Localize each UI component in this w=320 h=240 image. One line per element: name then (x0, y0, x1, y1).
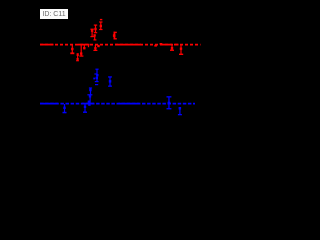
red top dash marker R8e (100, 19, 102, 20)
red error bar R8c above line (93, 34, 96, 40)
red error bar R2 (79, 45, 83, 57)
red marker above line R11 (160, 43, 163, 45)
red error bar R13 (179, 45, 183, 55)
red marker below line R10 (154, 45, 157, 47)
red error bar R8d above line (99, 21, 102, 30)
blue error bar B1 (63, 104, 67, 113)
red outlier error bar R7 (76, 53, 79, 61)
red error bar R5 (93, 45, 97, 51)
red stub R4 (88, 45, 89, 47)
blue mean magnitude dashed line (40, 103, 195, 105)
red half bracket error bar R9 (113, 32, 117, 40)
blue crossing error bar B7 (167, 96, 172, 109)
red error bar R12 (170, 45, 174, 51)
red error bar R1 (70, 45, 74, 54)
red error bar R8b above line (94, 25, 97, 34)
blue markers at line B4 (88, 101, 91, 106)
blue error bar B2 (83, 104, 87, 113)
red mean magnitude dashed line (40, 44, 201, 46)
blue stacked error bars B3 (87, 87, 92, 103)
blue error bar B8 (178, 107, 182, 115)
red error bar R3 (83, 45, 85, 49)
red error bar R8a above line (90, 29, 93, 38)
legend box ID: C11 (40, 9, 68, 19)
blue error bar B6 (108, 76, 112, 87)
blue error bar cluster B5 (93, 69, 98, 86)
red marker on line R6 (97, 45, 99, 47)
